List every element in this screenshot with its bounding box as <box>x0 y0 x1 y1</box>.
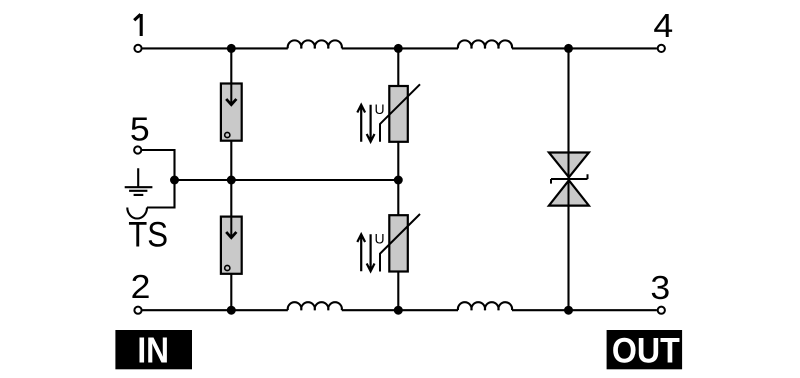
svg-text:3: 3 <box>650 270 670 307</box>
svg-text:U: U <box>375 101 385 117</box>
svg-text:4: 4 <box>653 8 673 45</box>
svg-text:OUT: OUT <box>612 332 680 371</box>
svg-text:TS: TS <box>128 216 168 255</box>
svg-text:IN: IN <box>137 331 169 371</box>
svg-text:5: 5 <box>130 111 150 148</box>
svg-text:2: 2 <box>131 269 151 306</box>
svg-text:U: U <box>375 230 385 246</box>
